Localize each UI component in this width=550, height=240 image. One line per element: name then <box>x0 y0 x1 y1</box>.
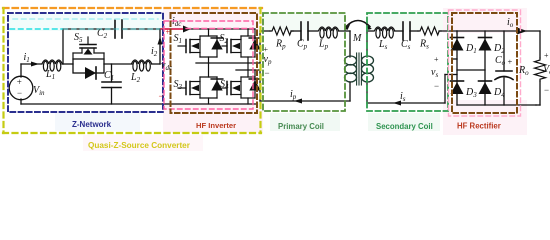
wire: source top riser and L1 wire <box>20 64 22 77</box>
resistor Rp <box>270 27 293 35</box>
wire: dc rail into inverter (crimson segment) <box>160 28 255 30</box>
HF Inverter box <box>171 13 258 113</box>
wire: right leg mid rail <box>236 69 260 71</box>
Quasi-Z-Source box top (orange) <box>3 7 262 9</box>
svg-text:+: + <box>166 28 171 37</box>
diode D4 <box>479 80 492 82</box>
diode D1 <box>451 37 464 39</box>
wire: secondary bottom into bridge <box>444 75 446 104</box>
svg-text:−: − <box>544 85 549 95</box>
transistor S4 <box>222 70 255 104</box>
wire <box>291 30 301 32</box>
inductor L2 <box>132 60 152 71</box>
primary winding <box>345 56 357 82</box>
svg-text:+: + <box>544 51 549 60</box>
wire: L2 to dc node <box>152 63 161 65</box>
Quasi-Z-Source box left/bottom/right (yellow) <box>2 8 4 133</box>
svg-text:+: + <box>508 57 513 67</box>
wire: riser inverter out to primary top <box>259 31 261 63</box>
mutual coupling M arrow <box>346 21 370 27</box>
wire <box>395 30 404 32</box>
wire: left leg mid rail <box>196 62 260 64</box>
transistor S1 <box>178 29 217 63</box>
diode of S4 <box>254 70 256 98</box>
wire: dc link riser with i2 arrow <box>159 29 161 64</box>
load branch <box>539 31 541 58</box>
wire: riser node A to top rail <box>62 29 64 64</box>
Secondary Coil box <box>367 13 448 111</box>
background tints <box>8 13 163 31</box>
transistor S3 <box>178 63 217 104</box>
capacitor Co <box>503 31 505 71</box>
core <box>356 53 358 85</box>
wire: primary top to transformer <box>339 30 351 32</box>
cyan inner dashes on dc rail <box>10 28 62 30</box>
capacitor C1 <box>111 64 113 82</box>
wire: primary top lead <box>260 30 270 32</box>
resistor Ro (vertical) <box>535 58 546 81</box>
source V_in <box>9 76 33 100</box>
svg-text:−: − <box>159 91 164 101</box>
wire: L1 to S3-block <box>62 63 73 65</box>
capacitor C2 <box>114 20 116 38</box>
HF Rectifier box <box>452 13 517 113</box>
wire: top rail left (cyan dashes overlay later) <box>63 28 115 30</box>
svg-text:+: + <box>434 55 439 64</box>
switch S5 <box>73 37 104 59</box>
bridge right leg <box>484 31 486 105</box>
svg-text:Vo: Vo <box>543 64 550 76</box>
diode in block <box>85 67 96 79</box>
svg-text:HF Inverter: HF Inverter <box>196 121 236 130</box>
svg-text:−: − <box>265 68 270 78</box>
magenta dashes on inverter dc rail <box>186 28 252 30</box>
resistor Rs <box>418 27 441 35</box>
wire: rectifier bottom rail <box>457 104 536 106</box>
diode block (S3 parallel diode) <box>73 59 104 73</box>
svg-text:+: + <box>264 45 269 54</box>
wire: riser inverter out to primary bottom <box>259 70 261 101</box>
diode D3 <box>451 80 464 82</box>
current arrow i_o <box>517 28 527 35</box>
capacitor Cp <box>300 22 302 40</box>
capacitor Cs <box>402 22 404 40</box>
wire: block to C1 node and L2 <box>104 63 132 65</box>
diode D2 <box>479 37 492 39</box>
wire: bridge mid rail <box>457 69 485 71</box>
svg-text:Primary Coil: Primary Coil <box>278 122 324 131</box>
wire: secondary winding to bottom rail <box>366 82 368 103</box>
inductor Ls <box>375 27 395 38</box>
svg-text:Secondary Coil: Secondary Coil <box>376 122 433 131</box>
magenta outer box of rectifier <box>449 10 521 116</box>
wire: primary bottom rail <box>260 100 350 102</box>
diode of S1 <box>216 36 218 57</box>
inductor Lp <box>319 27 339 38</box>
svg-text:−: − <box>434 81 439 91</box>
diode of S3 <box>216 77 218 98</box>
current arrow i_p <box>294 99 302 104</box>
wire: bottom rail <box>20 99 22 104</box>
wire: primary winding to bottom <box>349 82 351 101</box>
wire <box>410 30 418 32</box>
i_dc arrow <box>183 26 191 33</box>
svg-text:−: − <box>17 88 22 98</box>
svg-text:+: + <box>17 77 22 87</box>
wire: Rs to rectifier <box>439 30 457 32</box>
transistor S2 <box>222 29 255 70</box>
diode of S2 <box>254 29 256 57</box>
wire: secondary top <box>366 31 368 57</box>
magenta inner box of inverter <box>164 21 253 109</box>
svg-text:Z-Network: Z-Network <box>72 120 112 129</box>
wire: top rail right of C2 <box>122 28 160 30</box>
svg-text:Quasi-Z-Source Converter: Quasi-Z-Source Converter <box>88 141 191 150</box>
secondary winding <box>362 56 374 82</box>
current arrow i_1 <box>31 62 39 67</box>
Z-Network box <box>8 13 163 112</box>
Primary Coil box <box>263 13 345 111</box>
svg-text:HF Rectifier: HF Rectifier <box>457 122 501 131</box>
wire <box>308 30 318 32</box>
wire: rectifier top rail <box>457 30 540 32</box>
bridge left leg <box>456 31 458 105</box>
inductor L1 <box>42 60 62 71</box>
current arrow i_s <box>393 101 401 106</box>
svg-text:M: M <box>352 33 362 44</box>
